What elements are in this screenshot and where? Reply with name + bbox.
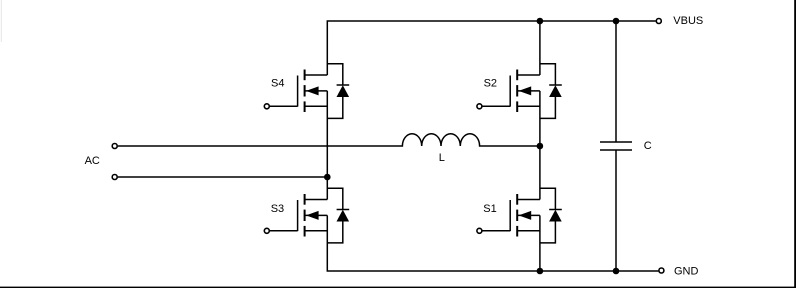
- node: junction top rail / right leg: [537, 18, 544, 25]
- svg-text:GND: GND: [674, 265, 699, 277]
- wire: capacitor branch lower: [615, 150, 617, 271]
- wire: top rail VBUS net: [327, 21, 656, 75]
- node: junction bottom rail / capacitor: [613, 268, 620, 275]
- wire: capacitor branch upper: [615, 21, 617, 142]
- terminal AC upper: [112, 144, 117, 149]
- svg-text:S4: S4: [271, 78, 284, 90]
- transistor S2 (MOSFET with body diode): [477, 64, 562, 119]
- wire: right leg S2 drain lead: [539, 21, 541, 75]
- wire: right leg S1 drain lead: [539, 146, 541, 200]
- node: junction top rail / capacitor: [613, 18, 620, 25]
- terminal AC lower: [112, 175, 117, 180]
- capacitor C: [600, 142, 632, 150]
- node: junction bottom rail / right leg: [537, 268, 544, 275]
- wire: left leg S3 drain lead: [326, 177, 328, 200]
- wire: right leg S1 source to GND rail: [539, 215, 541, 271]
- figure border left faint: [0, 0, 3, 42]
- terminal GND: [659, 268, 664, 273]
- figure border bottom: [0, 287, 796, 288]
- svg-text:S2: S2: [484, 78, 497, 90]
- wire: left leg S4 source to node A: [326, 91, 328, 177]
- transistor S1 (MOSFET with body diode): [477, 188, 562, 243]
- svg-text:VBUS: VBUS: [673, 15, 703, 27]
- svg-text:S3: S3: [271, 203, 284, 215]
- terminal VBUS: [656, 19, 661, 24]
- figure border right: [794, 0, 796, 288]
- transistor S3 (MOSFET with body diode): [264, 188, 349, 243]
- wire: right leg S2 source to node B: [539, 91, 541, 146]
- wire: bottom rail GND net: [327, 215, 658, 271]
- svg-text:AC: AC: [85, 155, 100, 167]
- svg-text:C: C: [644, 140, 652, 152]
- svg-text:S1: S1: [483, 203, 496, 215]
- node B: junction right leg / inductor: [537, 143, 544, 150]
- node A: junction left leg / AC lower: [324, 174, 331, 181]
- svg-text:L: L: [439, 152, 445, 164]
- transistor S4 (MOSFET with body diode): [264, 64, 349, 119]
- wire: lower AC line to node A: [118, 176, 328, 178]
- wire: upper AC line with inductor L: [118, 134, 540, 146]
